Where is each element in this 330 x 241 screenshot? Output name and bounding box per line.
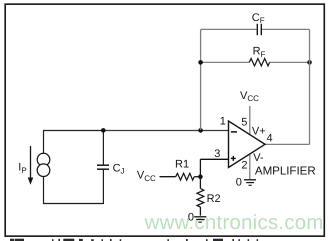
ground below R2 — [194, 217, 206, 222]
caption text clipped at bottom edge — [10, 239, 258, 241]
wire: RF branch — [201, 61, 310, 63]
svg-text:www.cntronics.com: www.cntronics.com — [144, 212, 324, 234]
junction node at CJ top — [101, 128, 106, 133]
wire: photodiode loop left/bottom/right — [44, 131, 104, 204]
svg-text:R1: R1 — [175, 158, 189, 170]
capacitor CJ — [97, 165, 109, 169]
svg-text:V+: V+ — [252, 126, 266, 138]
resistor R1 — [176, 173, 195, 180]
resistor R2 — [197, 189, 204, 208]
wire: VCC to R1 — [160, 176, 176, 178]
junction node RF right — [307, 60, 312, 65]
svg-text:5: 5 — [241, 117, 247, 129]
junction node at feedback/input — [198, 128, 203, 133]
wire: VCC to pin 5 — [249, 106, 251, 135]
junction node RF left — [198, 60, 203, 65]
op-amp minus input symbol — [231, 131, 237, 133]
wire: feedback right vertical — [309, 29, 311, 144]
svg-text:0: 0 — [236, 176, 242, 188]
junction node R1/R2 — [198, 174, 203, 179]
capacitor CF — [257, 24, 261, 35]
svg-text:V-: V- — [253, 152, 264, 164]
wire: R1 to junction — [194, 176, 200, 178]
resistor RF — [249, 59, 269, 66]
op-amp U1 triangle — [229, 121, 266, 168]
svg-text:AMPLIFIER: AMPLIFIER — [255, 165, 316, 178]
watermark www.cntronics.com — [144, 212, 324, 234]
current source IP (two circles) — [37, 153, 50, 176]
wire: junction down to R2 — [199, 177, 201, 189]
wire: R2 to ground — [199, 207, 201, 216]
wire: inverting input net (y=130) — [43, 130, 103, 132]
svg-text:2: 2 — [241, 159, 247, 171]
wire: junction up to pin 3 level — [199, 159, 201, 176]
wire: output net — [265, 143, 310, 145]
svg-text:1: 1 — [220, 115, 226, 127]
wire: pin 2 to ground — [249, 154, 251, 180]
svg-text:4: 4 — [267, 133, 273, 145]
wire: non-inverting input net (pin 3) — [200, 158, 228, 160]
svg-text:R2: R2 — [207, 193, 221, 205]
op-amp plus input symbol — [231, 156, 236, 161]
wire: feedback left vertical — [200, 29, 202, 130]
ground below op-amp — [244, 180, 256, 186]
arrow for IP current direction — [28, 146, 34, 185]
wire: CF top branch — [201, 28, 310, 30]
svg-text:3: 3 — [214, 148, 220, 160]
svg-text:0: 0 — [188, 212, 194, 224]
